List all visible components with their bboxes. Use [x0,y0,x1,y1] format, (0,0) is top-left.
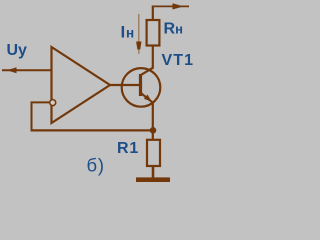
wire: RH top to output arrow [152,3,189,21]
wire: R1 to ground [152,165,155,178]
ground [136,177,170,182]
inverting input bubble [50,100,56,106]
wire: feedback horizontal into bubble [31,101,50,103]
svg-text:Uy: Uy [7,42,28,59]
wire: emitter rail down to junction [152,102,154,141]
input arrowhead (points left) [7,67,17,73]
current arrow IH [136,14,141,54]
wire: collector vertical to RH [152,46,154,69]
resistor R1 [147,140,160,166]
junction node [150,127,157,134]
svg-text:Rн: Rн [164,21,183,38]
wire: feedback bottom horizontal [31,129,154,131]
svg-text:R1: R1 [117,140,139,157]
resistor RH [147,20,160,46]
svg-text:Iн: Iн [121,23,135,42]
svg-text:VT1: VT1 [162,52,195,69]
wire: op-amp output to transistor base [109,84,140,86]
svg-text:б): б) [87,155,105,176]
transistor VT1 [122,68,161,107]
wire: feedback left vertical [31,102,33,132]
wire: Uy input to op-amp [2,69,52,71]
op-amp U1 triangle [52,47,111,123]
